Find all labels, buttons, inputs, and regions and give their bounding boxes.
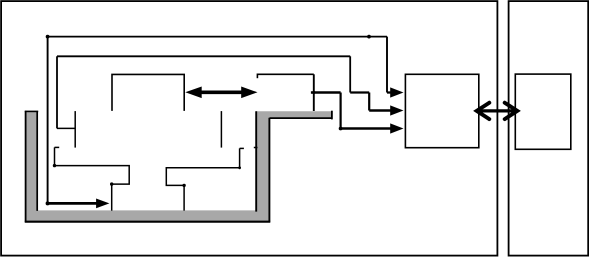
junction dot node C	[46, 201, 50, 205]
connector tick S3 on tray arm	[254, 147, 258, 149]
wire W1 left vertical	[47, 37, 49, 204]
wire W1 top horizontal	[48, 36, 387, 38]
wire W1 arrow shaft into box	[387, 91, 393, 93]
wire W2 right vertical	[349, 56, 351, 92]
wire W1 arrowhead into box	[390, 87, 403, 97]
double arrow D1 left head	[185, 87, 201, 99]
junction dot node F	[110, 182, 113, 185]
zigzag wire Z1 top tick	[55, 146, 60, 148]
double arrow D1 shaft	[201, 90, 243, 94]
wire W1 right vertical	[386, 37, 388, 93]
double arrow D2 right head	[505, 103, 518, 119]
tray outer bottom edge	[25, 221, 270, 223]
tray lip right end cap	[331, 111, 333, 120]
wire W2 step horizontal	[350, 91, 369, 93]
zigzag wire Z2	[166, 148, 239, 210]
junction dot node H	[238, 166, 241, 169]
wire W3 arrow shaft into box	[341, 127, 393, 129]
wire W2 step vertical	[368, 93, 370, 111]
wire W3 branch vertical	[340, 93, 342, 129]
wire W2 arrow shaft into box	[369, 109, 392, 111]
wire W3 branch horizontal	[311, 91, 341, 93]
right panel border	[509, 1, 589, 256]
wire W2 arrowhead into box	[390, 105, 403, 115]
wire W3 arrowhead into box	[390, 123, 403, 133]
zigzag wire Z2 top tick	[240, 147, 244, 149]
connector stub S2	[220, 111, 222, 148]
tray left arm top cap	[25, 110, 38, 112]
junction dot node E	[53, 164, 56, 167]
wire W2 top horizontal	[57, 55, 350, 57]
box B1	[405, 74, 478, 147]
junction dot node I	[312, 91, 315, 94]
gray tray (cradle with lip) fill	[25, 111, 332, 222]
double arrow D2 left head	[477, 103, 490, 119]
junction dot node G	[182, 184, 185, 187]
wire W2 link to stub	[57, 127, 75, 129]
tray right arm outer edge	[268, 118, 270, 222]
tray right arm inner edge	[255, 111, 257, 211]
zigzag wire Z1	[55, 147, 130, 210]
wire W1 bottom arrowhead	[96, 199, 109, 209]
tray outer left edge	[25, 111, 27, 223]
junction dot node B	[367, 35, 371, 39]
junction dot node D	[339, 127, 343, 131]
double arrow D2 shaft	[478, 109, 517, 112]
junction dot node A	[46, 35, 50, 39]
wire W3 vertical to tray lip	[313, 74, 315, 111]
bracket U1 (inverted U)	[112, 74, 184, 111]
connector stub S1	[74, 111, 76, 148]
wire W3 left end tick	[256, 74, 258, 79]
wire W2 left vertical	[56, 56, 58, 128]
box B2	[515, 74, 571, 149]
wire W3 top horizontal	[257, 73, 313, 75]
tray left arm inner edge	[36, 111, 38, 211]
wire W1 bottom arrow shaft	[48, 202, 98, 205]
double arrow D1 right head	[241, 87, 257, 99]
tray lip bottom edge	[270, 117, 332, 119]
